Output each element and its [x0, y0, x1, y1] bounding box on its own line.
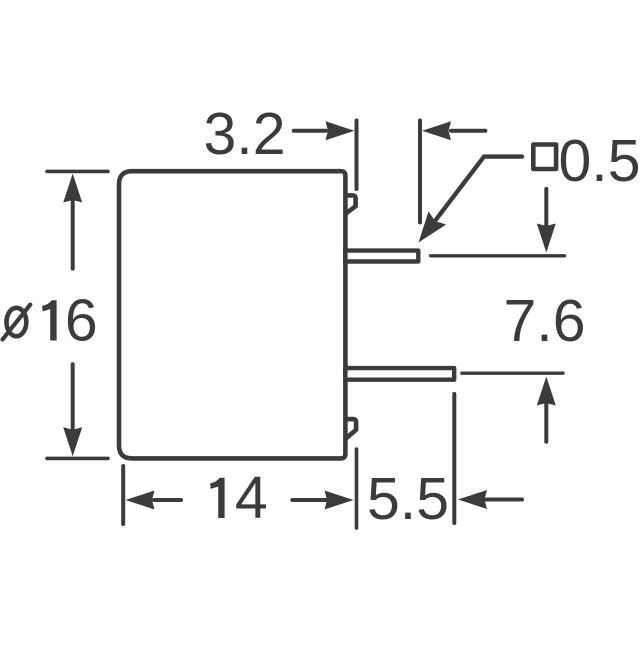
dimension o16 down arrow shaft: [71, 364, 75, 430]
extension line of upper lead center: [431, 254, 565, 257]
mounting tab upper: [346, 195, 356, 213]
mounting tab lower: [346, 419, 356, 438]
component body outline: [119, 171, 345, 458]
svg-text:3.2: 3.2: [203, 101, 285, 167]
pin 2 lower lead: [345, 368, 454, 380]
extension line shared body edge: [355, 449, 359, 528]
0.5 leader arrowhead: [419, 211, 447, 242]
14 right-pointing arrowhead: [325, 491, 354, 510]
dimension 3.2 dim line left: [294, 129, 326, 133]
svg-text:0.5: 0.5: [558, 128, 640, 194]
svg-text:6: 6: [65, 287, 98, 353]
dimension 0.5 down arrow shaft: [544, 189, 548, 225]
dimension 3.2 dim line right: [451, 129, 485, 133]
dimension o16 top tick: [47, 170, 108, 174]
o16 up arrowhead: [63, 174, 82, 203]
pin 1 upper lead: [345, 251, 418, 262]
svg-text:4: 4: [235, 465, 268, 531]
dimension o16 up arrow shaft: [71, 200, 75, 269]
dimension 3.2 extension line at lead end: [418, 121, 422, 223]
3.2 left-pointing arrowhead: [422, 121, 451, 140]
digit 1 of o16: [42, 300, 57, 340]
dimension 5.5 dim line right: [486, 498, 522, 502]
dimension 7.6 up arrow shaft: [544, 402, 548, 442]
14 left-pointing arrowhead: [126, 491, 155, 510]
square symbol of 0.5: [533, 145, 556, 170]
dimension 14 dim line right: [292, 498, 326, 502]
dimension 5.5 right extension line: [452, 394, 456, 523]
svg-text:7.6: 7.6: [503, 288, 585, 354]
3.2 right-pointing arrowhead: [326, 121, 355, 140]
digit 1 of 14: [210, 478, 225, 518]
0.5 down arrowhead: [537, 224, 556, 253]
7.6 up arrowhead: [537, 377, 556, 406]
dimension 3.2 extension line at body edge: [355, 121, 359, 190]
leader line of 0.5: [436, 157, 522, 220]
diameter symbol of o16: [3, 305, 31, 340]
o16 down arrowhead: [63, 427, 82, 456]
dimension 14 dim line left: [154, 498, 181, 502]
svg-text:5.5: 5.5: [367, 466, 449, 532]
dimension o16 bottom tick: [47, 457, 108, 461]
dimension 14 left extension line: [121, 466, 125, 524]
5.5 left-pointing arrowhead: [458, 490, 487, 509]
extension line of lower lead center: [462, 372, 563, 375]
